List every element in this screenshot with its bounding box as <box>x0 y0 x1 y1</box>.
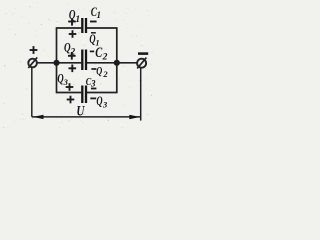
plus sign left terminal polarity <box>30 46 38 54</box>
wire bottom side right <box>87 92 117 94</box>
svg-text:Q: Q <box>96 94 102 108</box>
wire right rail <box>116 27 118 93</box>
capacitor C3 <box>82 86 86 104</box>
svg-text:3: 3 <box>90 79 96 89</box>
label -Q1 negative plate <box>89 32 99 47</box>
svg-text:2: 2 <box>102 53 108 63</box>
label -Q2 negative plate <box>91 64 108 80</box>
arrowhead right <box>129 115 140 119</box>
wire top side right <box>87 27 117 29</box>
svg-text:1: 1 <box>97 10 102 20</box>
terminal right <box>137 58 146 69</box>
plus sign C1 upper plate <box>68 18 76 25</box>
wire left rail <box>56 27 58 93</box>
paper speckle noise <box>3 2 152 129</box>
node left junction <box>53 60 59 66</box>
plus sign C3 lower <box>67 96 75 104</box>
svg-text:3: 3 <box>63 77 69 87</box>
terminal left <box>28 57 37 68</box>
wire bottom side left <box>57 92 82 94</box>
wire drop from right terminal <box>140 68 142 121</box>
minus sign right terminal polarity <box>138 52 148 55</box>
capacitor C2 <box>82 50 86 71</box>
plus sign C3 upper <box>66 83 74 91</box>
plus sign C2 upper <box>68 52 76 60</box>
minus sign C1 right plate <box>90 21 97 23</box>
capacitor C1 <box>82 18 86 33</box>
wire middle left <box>37 62 81 64</box>
svg-text:Q: Q <box>96 64 102 78</box>
label -Q3 negative plate <box>90 94 108 110</box>
wire top side left <box>57 27 82 29</box>
label -C2 <box>90 45 108 62</box>
arrowhead left <box>33 115 44 119</box>
voltage dimension line U <box>32 116 141 118</box>
svg-text:1: 1 <box>75 15 80 25</box>
wire drop from left terminal <box>31 67 33 117</box>
node right junction <box>114 60 120 66</box>
svg-text:U: U <box>76 103 85 119</box>
svg-text:2: 2 <box>102 69 108 79</box>
svg-text:3: 3 <box>102 100 108 110</box>
plus sign C2 lower <box>69 65 77 73</box>
paper background <box>0 0 154 130</box>
plus sign C1 lower <box>69 30 77 38</box>
svg-text:2: 2 <box>70 46 76 56</box>
minus sign C3 right plate <box>91 88 96 90</box>
wire middle right <box>87 62 137 64</box>
